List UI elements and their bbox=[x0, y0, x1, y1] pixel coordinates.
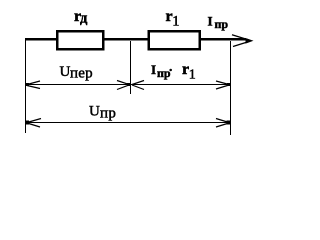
resistor R1 (r_д) body bbox=[57, 31, 103, 49]
svg-text:пр: пр bbox=[100, 106, 116, 122]
svg-text:пр: пр bbox=[215, 17, 229, 31]
dimension line U_пр bbox=[25, 119, 231, 128]
svg-text:U: U bbox=[60, 64, 71, 80]
wire: main horizontal conductor bbox=[25, 38, 246, 41]
resistor R2 (r_1) body bbox=[149, 31, 200, 49]
wire: middle vertical extension line bbox=[130, 41, 132, 94]
svg-text:I: I bbox=[151, 62, 156, 77]
svg-text:I: I bbox=[208, 13, 213, 28]
dimension line I_пр·r_1 bbox=[131, 81, 230, 90]
svg-text:пер: пер bbox=[70, 65, 93, 81]
wire: right vertical extension line bbox=[230, 41, 232, 135]
svg-text:д: д bbox=[80, 11, 88, 27]
svg-text:1: 1 bbox=[189, 68, 196, 83]
current arrow I_пр at end of wire bbox=[232, 35, 254, 47]
svg-text:U: U bbox=[89, 103, 100, 119]
wire: left vertical extension line bbox=[25, 40, 27, 133]
dimension line U_пер bbox=[26, 81, 130, 90]
svg-text:·: · bbox=[169, 62, 173, 77]
svg-text:1: 1 bbox=[172, 14, 179, 30]
